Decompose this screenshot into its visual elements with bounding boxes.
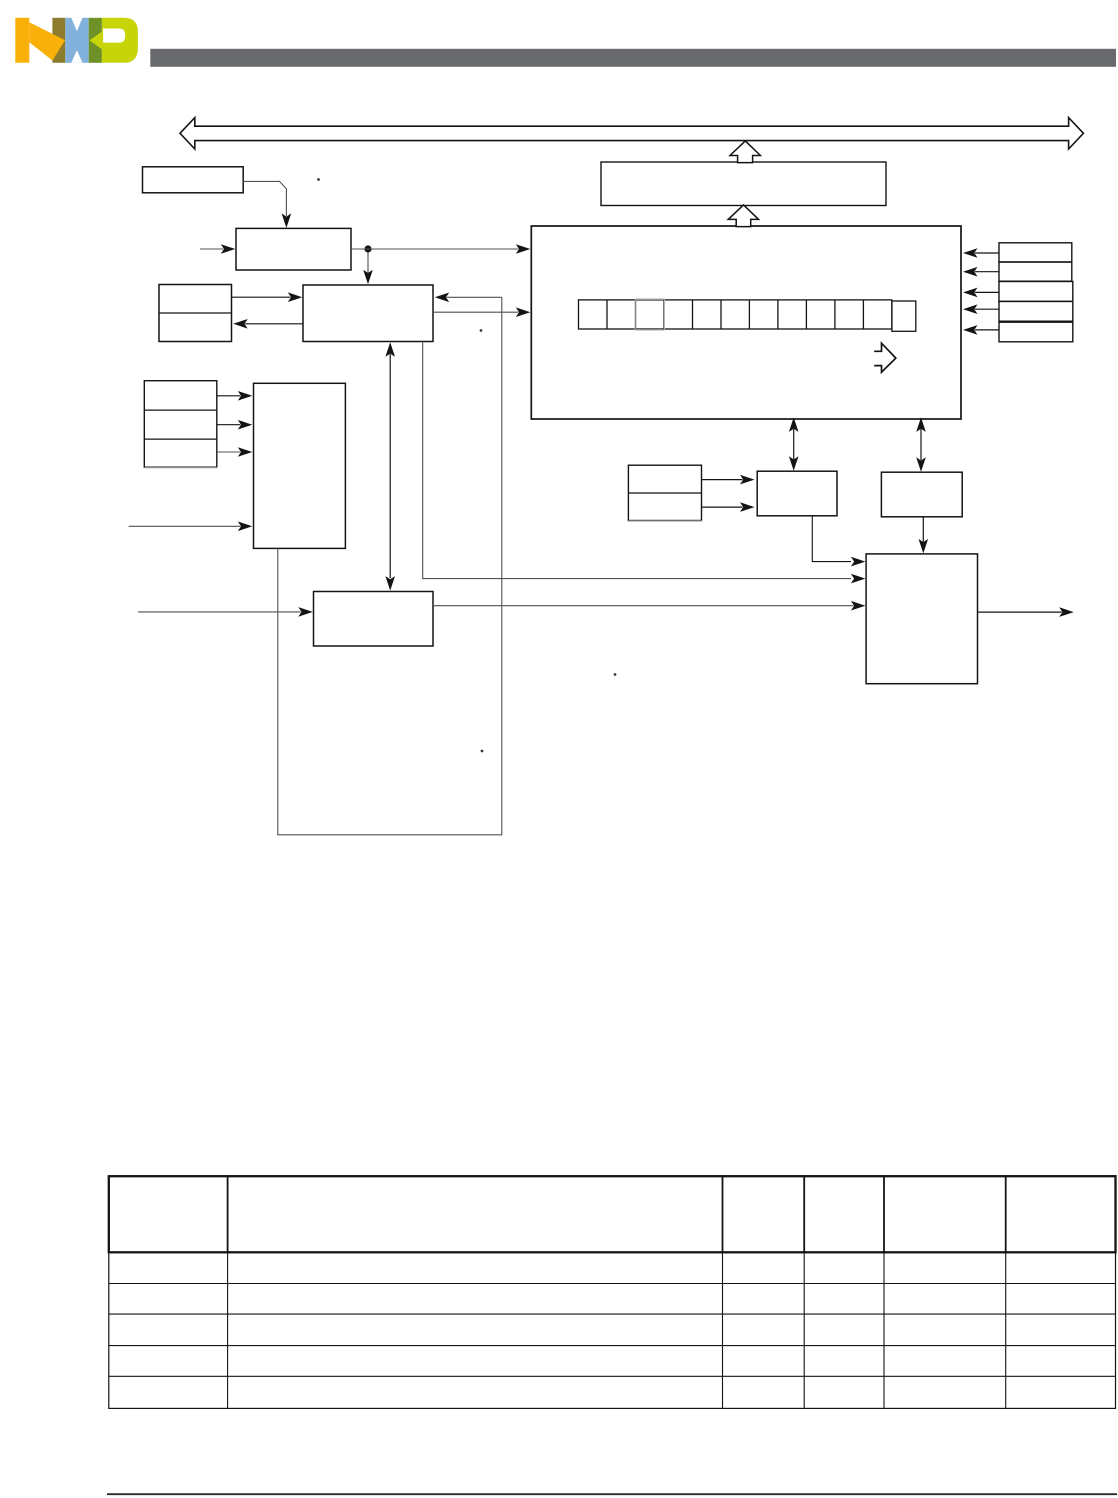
wire RAM to G [423, 342, 851, 579]
arrow J4 to H [975, 308, 999, 310]
block RAM [303, 285, 433, 342]
wire F to G [433, 605, 853, 607]
arrow G output [978, 611, 1062, 613]
arrow J5 to H [975, 329, 999, 331]
stray dot 2 [480, 329, 483, 332]
wire RAM to H [433, 311, 518, 313]
arrow J1 to H [975, 252, 999, 254]
arrow junction to RAM [367, 252, 369, 273]
footer rule [107, 1493, 1117, 1495]
block L [757, 471, 837, 516]
arrow input to E [129, 525, 241, 527]
register cell last [892, 301, 916, 331]
NXP logo [15, 18, 138, 63]
block I wide [601, 162, 886, 206]
hollow arrow I to bus [730, 141, 760, 163]
block B [236, 228, 351, 270]
block H [531, 226, 961, 419]
stack of blocks J [999, 243, 1072, 262]
block D three-row [144, 381, 217, 468]
bus double-headed arrow [180, 118, 1083, 149]
arrow C to RAM [232, 296, 291, 298]
stray dot 3 [481, 750, 484, 753]
wire L to G [812, 516, 851, 562]
hollow arrow H to I [728, 205, 758, 227]
arrow D2 to E [217, 424, 241, 426]
double arrow RAM-F [389, 354, 391, 578]
stray dot 4 [614, 673, 617, 676]
block M [881, 472, 962, 517]
arrow RAM to C [245, 323, 303, 325]
node junction dot [364, 245, 371, 252]
arrow J2 to H [975, 271, 999, 273]
double arrow H-L [793, 429, 795, 460]
register cell row [579, 300, 892, 329]
arrow loop to RAM [447, 296, 502, 298]
feedback loop wire [278, 297, 502, 835]
arrow into B [200, 248, 223, 250]
block C two-row [159, 285, 232, 342]
block G [866, 554, 977, 684]
arrow K1 to L [702, 479, 743, 481]
double arrow H-M [920, 429, 922, 460]
arrow K2 to L [702, 506, 743, 508]
register cell gray [635, 298, 665, 300]
title bar [150, 49, 1116, 67]
table [109, 1176, 1116, 1252]
arrow D1 to E [217, 395, 241, 397]
stray dot 1 [317, 178, 320, 181]
block A [143, 167, 244, 193]
block F [314, 592, 434, 647]
wire A to B [243, 181, 286, 216]
arrow J3 to H [975, 291, 999, 293]
arrow input to F [138, 611, 301, 613]
arrow M to G [922, 517, 924, 542]
open arrow icon [874, 343, 896, 372]
arrow D3 to E [217, 451, 241, 453]
block E tall [254, 383, 346, 548]
wire B to H [351, 248, 518, 250]
block K two-row [628, 465, 701, 520]
